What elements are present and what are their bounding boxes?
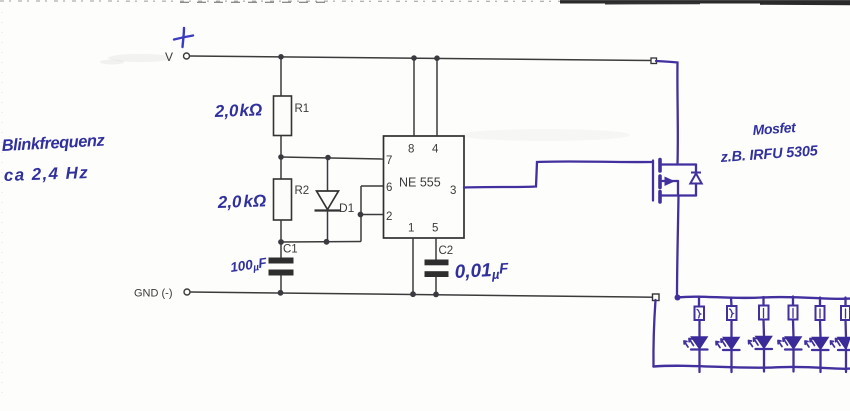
eraser smudge left of V [108, 54, 172, 62]
LED branch 2 [716, 298, 740, 373]
wire R1 top lead [280, 57, 282, 96]
svg-text:4: 4 [432, 144, 439, 156]
wire vertical pin6 to pin2 [360, 186, 362, 242]
channel bar dashes [658, 160, 662, 172]
node junction C1 gnd [278, 290, 284, 296]
LED branch 5 [805, 298, 829, 373]
body lead middle [662, 180, 678, 182]
node junction D1 top [325, 155, 331, 161]
wire row3 bottom of R2 D1 to pins 2-6 [281, 241, 361, 244]
scan left edge speckle [1, 12, 3, 400]
svg-text:ca 2,4 Hz: ca 2,4 Hz [3, 163, 89, 185]
svg-text:Blinkfrequenz: Blinkfrequenz [1, 132, 106, 155]
svg-text:2,0kΩ: 2,0kΩ [216, 191, 266, 212]
transistor Q1 mosfet symbol [653, 160, 696, 203]
terminal square gnd right [653, 294, 660, 301]
capacitor C1 [269, 242, 298, 293]
LED D7 [838, 338, 850, 350]
node junction R2 C1 [278, 239, 284, 245]
wire pin8 to V+ [413, 58, 415, 136]
svg-text:GND (-): GND (-) [134, 288, 173, 300]
node junction top R1 [278, 54, 284, 60]
svg-text:Mosfet: Mosfet [752, 119, 797, 138]
wire pin5 to C2 [435, 238, 437, 260]
node junction C2 gnd [433, 292, 439, 298]
svg-text:6: 6 [386, 182, 392, 194]
wire LED cathode bottom rail (blue) [654, 366, 850, 369]
diode D1 [315, 158, 355, 243]
node junction D1 bottom [324, 239, 330, 245]
resistor R1 [274, 96, 292, 136]
LED branch 4 [778, 297, 802, 372]
wire pin6 lead [361, 185, 384, 187]
svg-text:1: 1 [408, 223, 414, 235]
body arrow on middle lead [665, 177, 676, 187]
LED D4 [756, 337, 772, 349]
svg-text:5: 5 [432, 223, 438, 235]
resistor R2 [280, 157, 282, 179]
scan top edge band [0, 1, 850, 4]
svg-text:C1: C1 [283, 244, 298, 256]
eraser smudge above pin3 wire [460, 129, 630, 141]
body diode branch [695, 165, 697, 196]
wire R1 bottom lead [280, 136, 282, 158]
LED branch 1 [684, 297, 708, 373]
wire pin1 to GND [412, 238, 414, 294]
terminal square top right [651, 58, 657, 64]
LED branch 3 [749, 297, 773, 372]
wire pin2 lead [361, 214, 384, 216]
svg-text:NE 555: NE 555 [399, 176, 441, 190]
LED D5 [786, 337, 802, 349]
V input terminal [184, 53, 190, 59]
wire R2 bottom lead [280, 220, 282, 242]
GND terminal [184, 289, 190, 295]
svg-text:2,0kΩ: 2,0kΩ [213, 100, 262, 121]
svg-text:7: 7 [386, 155, 392, 167]
source lead top [662, 163, 696, 165]
node junction top pin4 [434, 55, 440, 61]
svg-text:3: 3 [450, 185, 456, 197]
gate bar [652, 161, 654, 201]
svg-text:R1: R1 [295, 103, 310, 115]
svg-text:2: 2 [386, 211, 392, 223]
wire V+ to mosfet source (blue) [656, 61, 678, 164]
LED D2 [692, 337, 708, 349]
svg-text:D1: D1 [339, 201, 355, 215]
wire GND rail [190, 292, 654, 297]
LED branch 6 [831, 298, 850, 373]
wire pin4 to V+ [436, 58, 438, 136]
drain lead bottom [662, 194, 696, 196]
capacitor C2 [425, 245, 454, 294]
svg-text:100µF: 100µF [229, 255, 268, 277]
node junction pin1 gnd [410, 291, 416, 297]
wire pin3 to gate (blue) [464, 161, 652, 187]
body tie vertical [677, 181, 679, 196]
svg-text:8: 8 [408, 144, 414, 156]
svg-text:z.B. IRFU 5305: z.B. IRFU 5305 [719, 143, 819, 166]
LED D3 [724, 338, 740, 350]
wire mosfet drain down to LED rail (blue) [677, 196, 679, 298]
node junction R1 R2 [278, 154, 284, 160]
svg-text:V: V [165, 50, 173, 64]
svg-text:C2: C2 [439, 245, 454, 257]
body diode triangle [690, 174, 701, 184]
svg-text:R2: R2 [295, 185, 310, 197]
handwritten plus sign [174, 28, 193, 47]
wire LED anode top rail (blue) [677, 297, 850, 299]
wire gnd drop to LED cathode rail (blue) [653, 300, 655, 367]
svg-text:0,01µF: 0,01µF [454, 259, 510, 284]
wire row to pin7 [281, 157, 384, 159]
IC op U1 NE555 box [384, 136, 465, 238]
LED D6 [813, 338, 829, 350]
node junction top pin8 [411, 55, 417, 61]
node junction drain rail [675, 295, 681, 301]
wire top V+ rail [190, 56, 654, 61]
node junction pin2 [358, 212, 364, 218]
